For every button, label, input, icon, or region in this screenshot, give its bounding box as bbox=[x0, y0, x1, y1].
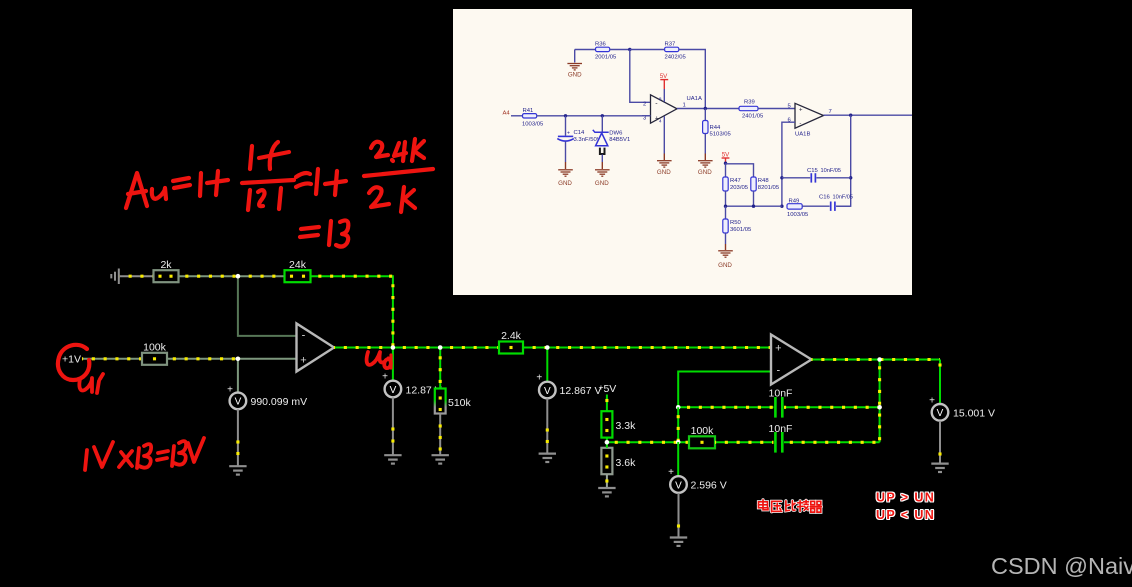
wire R39 to pin5 bbox=[758, 108, 795, 110]
svg-text:2401/05: 2401/05 bbox=[742, 114, 764, 120]
capacitor 10nF lower bbox=[774, 432, 777, 453]
svg-text:15.001 V: 15.001 V bbox=[953, 408, 995, 420]
ground (DW6) bbox=[595, 170, 610, 176]
wire R50 to ground bbox=[725, 233, 727, 244]
svg-text:+: + bbox=[382, 372, 388, 383]
svg-text:R50: R50 bbox=[730, 220, 742, 226]
node UA1B output junction bbox=[849, 114, 852, 117]
svg-text:V: V bbox=[390, 385, 397, 396]
wire C14 to ground bbox=[565, 142, 567, 163]
svg-text:3.3k: 3.3k bbox=[616, 420, 637, 432]
svg-text:R41: R41 bbox=[523, 108, 534, 114]
wire pin3 stub bbox=[642, 115, 651, 117]
resistor R41 bbox=[523, 114, 537, 118]
annotation label 电压比较器 (voltage comparator) bbox=[759, 500, 769, 510]
svg-text:-: - bbox=[302, 330, 306, 342]
wire node H to node G bbox=[677, 407, 679, 441]
svg-text:GND: GND bbox=[698, 169, 712, 176]
voltmeter probe 2.596 V bbox=[670, 476, 687, 493]
ground (3.6k) bbox=[598, 488, 615, 496]
wire node C to probe2 bbox=[392, 348, 394, 382]
svg-text:R37: R37 bbox=[665, 42, 676, 48]
svg-text:+: + bbox=[668, 467, 674, 478]
svg-text:24k: 24k bbox=[289, 259, 307, 271]
svg-text:510k: 510k bbox=[448, 397, 472, 409]
svg-text:3.6k: 3.6k bbox=[616, 457, 637, 469]
resistor R50 bbox=[725, 206, 727, 219]
node I junction (output) bbox=[877, 357, 882, 362]
ground (510k) bbox=[432, 455, 449, 463]
resistor R44 bbox=[704, 109, 706, 121]
svg-text:R48: R48 bbox=[758, 178, 770, 184]
ground (UA1A pin4) bbox=[657, 161, 672, 167]
wire 510k to ground bbox=[439, 414, 441, 455]
wire output vertical to caps bbox=[837, 115, 851, 206]
node F junction bbox=[605, 440, 610, 445]
svg-text:+1V: +1V bbox=[62, 354, 81, 366]
node D junction bbox=[438, 345, 443, 350]
annotation ui bbox=[79, 378, 92, 392]
wire R36 to node bbox=[610, 49, 630, 51]
annotation fraction 2.4K over 2k bbox=[371, 142, 388, 157]
svg-text:UP > UN: UP > UN bbox=[876, 491, 935, 505]
svg-text:100k: 100k bbox=[143, 342, 167, 354]
svg-text:12.867 V: 12.867 V bbox=[560, 385, 602, 397]
wire probe1 to ground bbox=[237, 409, 239, 465]
svg-text:+: + bbox=[799, 107, 803, 113]
resistor R39 bbox=[739, 106, 758, 110]
svg-text:UA1A: UA1A bbox=[687, 96, 702, 102]
node A junction bbox=[236, 274, 241, 279]
wire UA1A output bbox=[677, 108, 739, 110]
ground (probe3) bbox=[539, 454, 556, 462]
svg-text:3601/05: 3601/05 bbox=[730, 227, 752, 233]
wire +5V to 3.3k bbox=[606, 395, 608, 412]
node J junction (cap) bbox=[877, 405, 882, 410]
node C junction (output/feedback) bbox=[391, 345, 396, 350]
svg-text:100k: 100k bbox=[691, 425, 715, 437]
wire right vertical bbox=[879, 360, 881, 443]
svg-text:A4: A4 bbox=[503, 111, 511, 117]
capacitor C16 bbox=[830, 202, 832, 211]
node H junction bbox=[676, 405, 681, 410]
node pin6/R49 junction bbox=[780, 205, 783, 208]
node rail R48 junction bbox=[752, 205, 755, 208]
zener diode DW6 bbox=[601, 116, 603, 132]
annotation formula Au bbox=[126, 173, 147, 208]
wire U2 inverting net bbox=[678, 372, 771, 408]
annotation equals 13 bbox=[301, 227, 319, 229]
svg-text:UA1B: UA1B bbox=[795, 132, 810, 138]
wire probe4 to ground bbox=[678, 493, 680, 537]
svg-text:2.596 V: 2.596 V bbox=[691, 480, 727, 492]
wire node A to U1 inverting input bbox=[238, 277, 297, 336]
resistor R36 bbox=[596, 47, 610, 51]
svg-text:C14: C14 bbox=[574, 130, 586, 136]
wire 5V to R47/R48 bbox=[725, 163, 727, 177]
node C15 right junction bbox=[849, 176, 852, 179]
resistor 2k bbox=[154, 270, 179, 282]
svg-text:GND: GND bbox=[568, 72, 582, 79]
svg-text:84B5V1: 84B5V1 bbox=[609, 137, 630, 143]
svg-text:V: V bbox=[675, 480, 682, 491]
resistor 3.6k bbox=[601, 448, 612, 474]
svg-text:GND: GND bbox=[595, 180, 609, 187]
svg-text:-: - bbox=[799, 121, 801, 127]
wire probe5 to ground bbox=[939, 421, 941, 463]
wire DW6 to ground bbox=[601, 155, 603, 163]
node C14 junction bbox=[564, 114, 567, 117]
wire R49 to C16 bbox=[802, 205, 829, 207]
wire C-lower to right vertical bbox=[784, 441, 880, 443]
inset schematic panel background bbox=[453, 9, 912, 295]
capacitor C14 bbox=[565, 116, 567, 136]
svg-text:UP < UN: UP < UN bbox=[876, 508, 935, 522]
svg-text:R47: R47 bbox=[730, 178, 741, 184]
annotation u_o output bbox=[367, 352, 384, 365]
capacitor C15 bbox=[782, 177, 810, 179]
svg-text:1003/05: 1003/05 bbox=[787, 212, 809, 218]
svg-text:203/05: 203/05 bbox=[730, 185, 749, 191]
wire node D to 510k bbox=[439, 348, 441, 389]
wire 100k to node B bbox=[167, 358, 238, 360]
svg-text:R44: R44 bbox=[710, 125, 722, 131]
svg-text:2402/05: 2402/05 bbox=[665, 55, 687, 61]
wire UA1B pin6 net bbox=[782, 122, 795, 206]
node R36/R37 junction bbox=[628, 48, 631, 51]
voltmeter probe 990.099 mV bbox=[230, 393, 247, 410]
resistor R37 bbox=[665, 47, 679, 51]
svg-text:10nF/05: 10nF/05 bbox=[833, 195, 854, 201]
annotation fraction Rf over R1 bbox=[250, 146, 252, 169]
svg-text:990.099 mV: 990.099 mV bbox=[251, 396, 308, 408]
svg-text:+: + bbox=[536, 373, 542, 384]
op-amp U1 bbox=[297, 324, 335, 372]
wire R41 to pin3 bbox=[537, 115, 651, 117]
svg-text:1003/05: 1003/05 bbox=[522, 121, 544, 127]
resistor R49 bbox=[787, 204, 802, 209]
ground (R36 left) bbox=[567, 64, 582, 70]
wire U2 output bbox=[812, 359, 941, 361]
wire 2k to node A bbox=[179, 275, 238, 277]
wire A4 to R41 bbox=[511, 115, 523, 117]
svg-text:R36: R36 bbox=[595, 42, 607, 48]
wire node to R37 bbox=[630, 49, 665, 51]
svg-text:2k: 2k bbox=[160, 259, 172, 271]
wire R37 to output node bbox=[679, 50, 706, 109]
annotation 1V x 13 = 13V bbox=[85, 438, 204, 470]
svg-text:V: V bbox=[544, 386, 551, 397]
wire R36 left to GND bbox=[575, 49, 596, 51]
resistor 2.4k bbox=[499, 342, 523, 354]
wire node G to probe4 bbox=[677, 442, 679, 476]
svg-text:-: - bbox=[776, 364, 780, 376]
ground (R50) bbox=[718, 251, 733, 257]
capacitor 10nF upper bbox=[774, 397, 777, 418]
voltmeter probe 12.867 V bbox=[539, 382, 556, 399]
svg-text:2: 2 bbox=[643, 102, 646, 108]
node UA1A output junction bbox=[704, 107, 707, 110]
wire ground to 2k bbox=[120, 275, 154, 277]
wire node H to C-upper bbox=[678, 406, 773, 408]
svg-text:R49: R49 bbox=[789, 199, 800, 205]
ground (probe5) bbox=[931, 464, 948, 472]
ground (top-left rail) bbox=[111, 269, 119, 285]
svg-text:GND: GND bbox=[558, 180, 572, 187]
op-amp UA1B bbox=[795, 103, 824, 128]
wire node B to U1 non-inverting input bbox=[238, 358, 297, 360]
node DW6 junction bbox=[601, 114, 604, 117]
wire UA1B output bbox=[824, 114, 913, 116]
resistor R48 bbox=[751, 177, 756, 191]
resistor 100k (comparator) bbox=[689, 436, 715, 448]
voltmeter probe 12.87 V bbox=[385, 381, 402, 398]
svg-text:1: 1 bbox=[683, 103, 686, 109]
svg-text:V: V bbox=[937, 408, 944, 419]
wire UA1A pin4 to ground bbox=[663, 116, 665, 153]
svg-text:2001/05: 2001/05 bbox=[595, 55, 617, 61]
ground (probe4) bbox=[670, 538, 687, 546]
resistor 24k bbox=[285, 270, 311, 282]
wire R44 to ground bbox=[704, 134, 706, 154]
wire +1V to 100k bbox=[82, 358, 142, 360]
node pin6/C15 junction bbox=[780, 176, 783, 179]
wire node A to 24k bbox=[238, 275, 285, 277]
svg-text:C15: C15 bbox=[807, 168, 819, 174]
svg-text:5103/05: 5103/05 bbox=[710, 132, 732, 138]
svg-text:GND: GND bbox=[718, 262, 732, 269]
svg-text:+: + bbox=[929, 396, 935, 407]
resistor R47 bbox=[723, 177, 728, 191]
resistor 3.3k bbox=[601, 411, 612, 437]
wire probe3 to ground bbox=[546, 398, 548, 453]
wire node E to probe3 bbox=[546, 348, 548, 383]
node G junction bbox=[676, 440, 681, 445]
svg-text:2.4k: 2.4k bbox=[501, 330, 522, 342]
ground (probe2) bbox=[384, 455, 401, 463]
svg-text:+: + bbox=[227, 385, 233, 396]
op-amp UA1A bbox=[651, 95, 678, 123]
op-amp U2 bbox=[771, 335, 812, 385]
wire probe2 to ground bbox=[392, 397, 394, 454]
svg-text:10nF/05: 10nF/05 bbox=[821, 168, 842, 174]
svg-text:+: + bbox=[567, 131, 570, 137]
annotation circle around +1V bbox=[58, 345, 89, 380]
svg-text:10nF: 10nF bbox=[769, 388, 793, 400]
ground (R44) bbox=[698, 161, 713, 167]
svg-text:CSDN @Naiva: CSDN @Naiva bbox=[991, 553, 1132, 579]
svg-text:DW6: DW6 bbox=[609, 131, 623, 137]
wire C-upper to right vertical bbox=[784, 406, 880, 408]
node 5V junction bbox=[724, 162, 727, 165]
svg-text:+: + bbox=[300, 355, 306, 367]
wire node to UA1A pin2 bbox=[630, 50, 651, 103]
wire 3.6k to ground bbox=[606, 442, 608, 448]
wire 24k feedback to output node bbox=[311, 276, 393, 346]
svg-text:7: 7 bbox=[829, 109, 832, 115]
svg-text:GND: GND bbox=[657, 169, 671, 176]
voltmeter probe 15.001 V bbox=[932, 404, 949, 421]
svg-text:C16: C16 bbox=[819, 195, 831, 201]
wire node F to 100k bbox=[607, 441, 689, 443]
svg-text:+: + bbox=[775, 343, 781, 355]
node rail R47 junction bbox=[724, 205, 727, 208]
ground (C14) bbox=[558, 170, 573, 176]
ground (probe1) bbox=[229, 466, 246, 474]
wire R47/R48 bottoms to rail bbox=[725, 191, 727, 206]
wire U1 output line bbox=[334, 347, 771, 349]
resistor 100k (input) bbox=[142, 353, 167, 365]
node B junction bbox=[236, 357, 241, 362]
svg-text:R39: R39 bbox=[744, 100, 755, 106]
wire 100k to C-lower bbox=[715, 441, 774, 443]
svg-text:8201/05: 8201/05 bbox=[758, 185, 780, 191]
node E junction bbox=[545, 345, 550, 350]
annotation equals 1 plus bbox=[296, 173, 310, 177]
wire node B down to probe1 bbox=[237, 359, 239, 393]
svg-text:10nF: 10nF bbox=[769, 423, 793, 435]
wire 3.3k to node F bbox=[606, 438, 608, 443]
svg-text:V: V bbox=[235, 397, 242, 408]
